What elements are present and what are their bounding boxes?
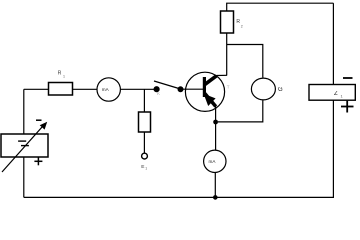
wire: Z1 bottom to bottom-right corner and bottom rail bbox=[24, 100, 334, 197]
wire: mA2 to bottom rail bbox=[214, 172, 216, 197]
wire: collector node branch to galvanometer G bbox=[227, 45, 263, 78]
battery Z1 bbox=[309, 78, 355, 113]
transistor T bbox=[185, 72, 229, 111]
wire: branch down to resistor R3 bbox=[143, 89, 145, 112]
svg-text:1: 1 bbox=[63, 75, 65, 79]
svg-text:R: R bbox=[58, 70, 62, 76]
wire: junction to milliammeter mA2 bbox=[215, 122, 217, 150]
svg-text:T: T bbox=[227, 85, 230, 90]
resistor R1 bbox=[49, 70, 73, 95]
svg-text:Z: Z bbox=[334, 91, 338, 97]
switch K bbox=[154, 81, 183, 96]
svg-text:mA: mA bbox=[209, 159, 217, 164]
milliammeter mA2 bbox=[204, 150, 226, 172]
svg-text:mA: mA bbox=[102, 87, 110, 92]
wire: bottom-left rail up to source bbox=[23, 157, 25, 197]
wire: R3 to terminal E1 bbox=[143, 132, 145, 153]
wire: R1 to milliammeter mA1 bbox=[73, 88, 98, 90]
wire: right rail down to battery Z1 bbox=[332, 3, 334, 84]
galvanometer G bbox=[251, 78, 283, 100]
resistor R2 bbox=[221, 11, 243, 33]
junction: emitter/G node bbox=[213, 120, 218, 125]
milliammeter mA1 bbox=[97, 78, 120, 101]
variable source B1 (adjustable battery box) bbox=[1, 120, 48, 172]
wire: left rail top segment (24,89)-(48.5,89) bbox=[24, 88, 49, 90]
terminal E1 (open circle) bbox=[141, 153, 147, 170]
wire: R2 top to top rail corner bbox=[227, 3, 334, 11]
wire: emitter down to junction bbox=[215, 106, 217, 122]
resistor R3 bbox=[139, 112, 151, 132]
svg-text:E: E bbox=[141, 164, 144, 170]
svg-text:K: K bbox=[157, 91, 160, 96]
svg-text:R: R bbox=[236, 19, 240, 25]
wire: left rail from base line down to source bbox=[23, 89, 25, 134]
junction: bottom rail node bbox=[213, 195, 218, 200]
svg-text:G: G bbox=[278, 87, 283, 93]
wire: switch to transistor base bbox=[183, 88, 203, 90]
wire: mA1 to switch bbox=[120, 88, 154, 90]
wire: G bottom to emitter junction bbox=[218, 100, 263, 122]
svg-text:1: 1 bbox=[145, 166, 147, 170]
svg-text:2: 2 bbox=[241, 24, 243, 28]
wire: collector up to resistor R2 bbox=[226, 33, 228, 76]
